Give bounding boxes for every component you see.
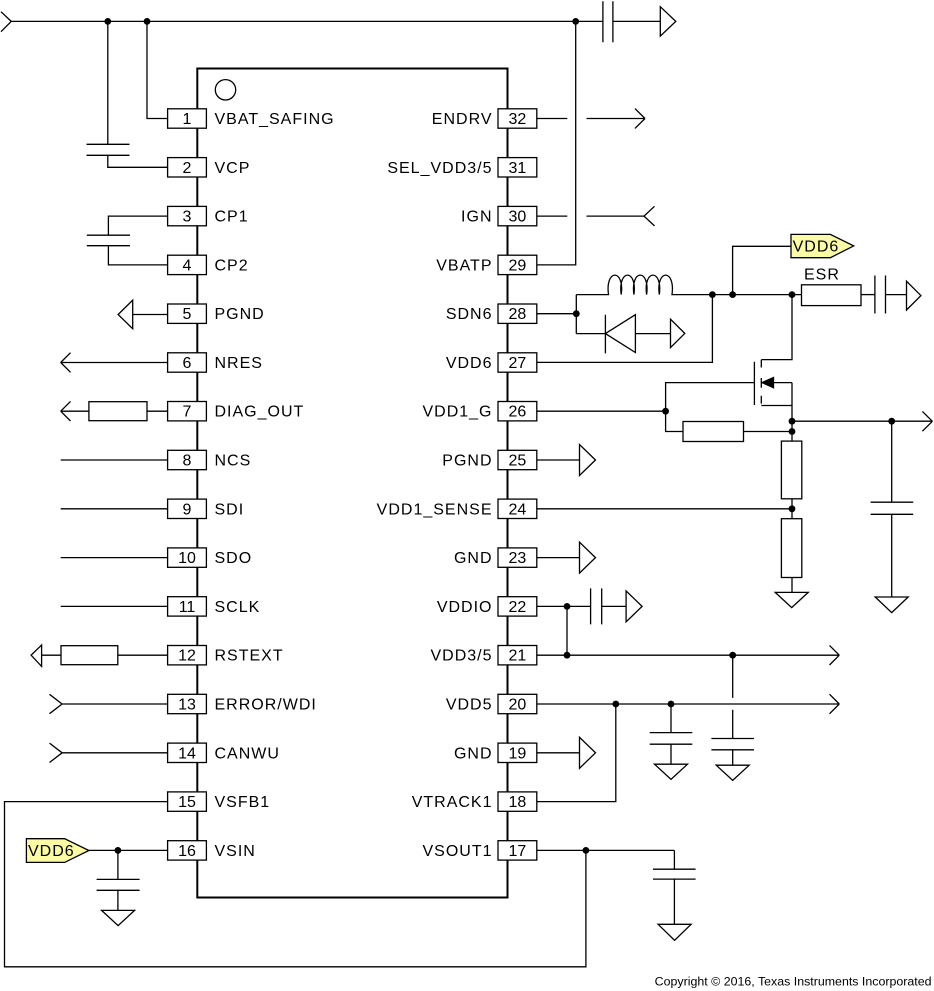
junction dot (VDD3/5 cap tap) bbox=[729, 652, 736, 659]
pin 18 box bbox=[498, 792, 537, 811]
wire flag to pin 16 bbox=[89, 849, 168, 851]
wire drain to FET bbox=[761, 295, 792, 360]
pin 24 box bbox=[498, 499, 537, 518]
junction dot (sense tap) bbox=[789, 505, 796, 512]
junction dot (VDDIO tap) bbox=[564, 603, 571, 610]
IC body U1 bbox=[197, 69, 507, 898]
wire pin 11 bbox=[61, 605, 168, 607]
svg-text:CP1: CP1 bbox=[215, 209, 249, 226]
wire pin 21 VDD3/5 bbox=[537, 645, 840, 665]
wire VDDIO cap to arrow bbox=[602, 605, 626, 607]
wire pin 26 bbox=[537, 410, 666, 412]
ground arrow (ESR cap) bbox=[907, 281, 921, 310]
svg-text:23: 23 bbox=[509, 550, 527, 567]
ground arrow pin 23 bbox=[580, 542, 596, 573]
wire cap to pin 2 bbox=[108, 155, 168, 167]
transistor Q1 body arrow bbox=[762, 378, 774, 388]
inductor L1 bbox=[576, 275, 801, 295]
svg-text:6: 6 bbox=[183, 355, 192, 372]
ground (VDD1 out cap) bbox=[875, 597, 908, 613]
junction dot (VSOUT1 loop) bbox=[583, 847, 590, 854]
svg-text:8: 8 bbox=[183, 453, 192, 470]
junction dot (flag tap) bbox=[729, 291, 736, 298]
wire pin 28 SDN6 bbox=[537, 295, 577, 334]
svg-text:32: 32 bbox=[509, 111, 527, 128]
pin 17 box bbox=[498, 841, 537, 860]
svg-text:VDD6: VDD6 bbox=[28, 843, 75, 860]
wire pin 12 right bbox=[118, 654, 168, 656]
pin 30 box bbox=[498, 206, 537, 225]
svg-text:30: 30 bbox=[509, 209, 527, 226]
input arrowhead pin 14 (CANWU) bbox=[50, 743, 63, 762]
net flag VDD6 (bottom left) bbox=[26, 839, 89, 863]
svg-text:VDD6: VDD6 bbox=[446, 355, 493, 372]
capacitor C (VDD3/5) bbox=[711, 739, 754, 750]
wire pin 14 bbox=[62, 752, 168, 754]
resistor ESR bbox=[802, 285, 862, 306]
junction dot SDN6 bbox=[573, 310, 580, 317]
capacitor C (VDDIO) bbox=[591, 588, 602, 624]
pin 31 box bbox=[498, 158, 537, 177]
wire gate lead bbox=[666, 383, 755, 412]
pin 14 box bbox=[168, 743, 207, 762]
junction dot bbox=[104, 18, 111, 25]
svg-text:27: 27 bbox=[509, 355, 527, 372]
wire from dot down to VCP cap bbox=[107, 21, 109, 144]
wire ESR to cap bbox=[861, 294, 875, 296]
svg-text:14: 14 bbox=[178, 745, 196, 762]
pin 6 box bbox=[168, 353, 207, 372]
transistor Q1 (NMOS) bbox=[754, 360, 792, 441]
pin 8 box bbox=[168, 450, 207, 469]
svg-text:IGN: IGN bbox=[461, 209, 492, 226]
wire pin 12 left bbox=[42, 654, 61, 656]
svg-text:21: 21 bbox=[509, 648, 527, 665]
wire VDD5 cap bbox=[670, 704, 672, 733]
input arrowhead pin 13 (ERROR/WDI) bbox=[50, 694, 63, 713]
output arrowhead pin 7 (DIAG_OUT) bbox=[61, 401, 71, 421]
pin 28 box bbox=[498, 304, 537, 323]
pin 26 box bbox=[498, 402, 537, 421]
svg-text:12: 12 bbox=[178, 648, 196, 665]
wire pin 5 bbox=[133, 314, 168, 316]
wire cap to ground bbox=[732, 750, 734, 765]
svg-text:3: 3 bbox=[183, 209, 192, 226]
resistor R (DIAG_OUT) bbox=[89, 402, 147, 421]
svg-text:SCLK: SCLK bbox=[215, 599, 261, 616]
wire pin 30 stub bbox=[537, 215, 568, 217]
pin 7 box bbox=[168, 402, 207, 421]
svg-text:31: 31 bbox=[509, 160, 527, 177]
wire pin 20 VDD5 bbox=[537, 694, 840, 714]
svg-text:26: 26 bbox=[509, 404, 527, 421]
svg-text:7: 7 bbox=[183, 404, 192, 421]
signal arrow ENDRV bbox=[587, 109, 646, 129]
svg-text:SDI: SDI bbox=[215, 501, 245, 518]
svg-text:PGND: PGND bbox=[215, 306, 265, 323]
pin 19 box bbox=[498, 743, 537, 762]
capacitor C (VSIN) bbox=[97, 879, 140, 890]
junction dot (output cap tap) bbox=[888, 418, 895, 425]
ground arrow pin 19 bbox=[580, 737, 596, 768]
pin 29 box bbox=[498, 255, 537, 274]
pin 5 box bbox=[168, 304, 207, 323]
wire cap to ground arrow bbox=[886, 294, 907, 296]
junction dot (source node) bbox=[789, 418, 796, 425]
net flag VDD6 (top right) bbox=[791, 234, 854, 257]
pin 25 box bbox=[498, 450, 537, 469]
svg-text:24: 24 bbox=[509, 501, 527, 518]
ground arrow pin 5 (PGND) bbox=[118, 300, 133, 329]
svg-text:16: 16 bbox=[178, 843, 196, 860]
pin 15 box bbox=[168, 792, 207, 811]
svg-text:NCS: NCS bbox=[215, 453, 252, 470]
junction dot bbox=[115, 847, 122, 854]
svg-text:17: 17 bbox=[509, 843, 527, 860]
wire top rail bbox=[11, 20, 602, 22]
junction dot (VTRACK tap) bbox=[612, 701, 619, 708]
pin 12 box bbox=[168, 646, 207, 665]
svg-text:1: 1 bbox=[183, 111, 192, 128]
svg-text:SDN6: SDN6 bbox=[446, 306, 493, 323]
wire VDD6 node to pin 27 bbox=[537, 295, 713, 363]
junction dot (VDD1_G) bbox=[662, 408, 669, 415]
pin 9 box bbox=[168, 499, 207, 518]
pin 16 box bbox=[168, 841, 207, 860]
wire VDD1 output bbox=[792, 411, 932, 431]
pin 4 box bbox=[168, 255, 207, 274]
svg-text:GND: GND bbox=[454, 745, 493, 762]
wire pin 3 to CP cap bbox=[108, 216, 167, 235]
wire pin 24 VDD1_SENSE bbox=[537, 508, 792, 510]
wire pin 22 VDDIO bbox=[537, 605, 591, 607]
pin 10 box bbox=[168, 548, 207, 567]
pin 21 box bbox=[498, 646, 537, 665]
svg-text:VTRACK1: VTRACK1 bbox=[412, 794, 493, 811]
resistor R2 (divider) bbox=[781, 519, 801, 578]
svg-text:20: 20 bbox=[509, 697, 527, 714]
svg-text:VDDIO: VDDIO bbox=[437, 599, 493, 616]
svg-text:ESR: ESR bbox=[804, 267, 840, 284]
wire cap to ground bbox=[673, 879, 675, 924]
wire VDDIO tap down to VDD3/5 bbox=[566, 606, 568, 655]
resistor R (RSTEXT) bbox=[61, 646, 118, 665]
svg-text:29: 29 bbox=[509, 257, 527, 274]
junction dot (VDD3/5 left) bbox=[564, 652, 571, 659]
svg-text:25: 25 bbox=[509, 453, 527, 470]
ground arrow (diode) bbox=[671, 319, 685, 347]
wire gate resistor to source node bbox=[744, 431, 793, 433]
svg-text:VDD1_SENSE: VDD1_SENSE bbox=[377, 501, 493, 518]
ground (VDD3/5 cap) bbox=[716, 765, 749, 780]
wire dot to cap bbox=[117, 850, 119, 879]
wire pin 9 bbox=[61, 508, 168, 510]
pin 3 box bbox=[168, 206, 207, 225]
svg-text:VBAT_SAFING: VBAT_SAFING bbox=[215, 111, 335, 128]
svg-text:PGND: PGND bbox=[442, 453, 492, 470]
junction dot (FET drain tap) bbox=[789, 291, 796, 298]
diode D1 bbox=[576, 315, 670, 354]
wire R1 to R2 bbox=[791, 499, 793, 519]
resistor R (gate) bbox=[683, 422, 744, 442]
junction dot (VDD6 node / L out) bbox=[709, 291, 716, 298]
wire pin 25 stub bbox=[537, 459, 580, 461]
ground arrow (VDDIO cap) bbox=[626, 591, 642, 622]
ground arrow (top right) bbox=[660, 7, 676, 36]
svg-text:VDD6: VDD6 bbox=[793, 239, 840, 256]
wire pin 17 VSOUT1 bbox=[537, 849, 675, 851]
wire pin 18 VTRACK1 bbox=[537, 704, 616, 802]
ground arrow pin 12 (RSTEXT) bbox=[31, 645, 41, 666]
pin 27 box bbox=[498, 353, 537, 372]
svg-text:11: 11 bbox=[179, 599, 196, 616]
wire VSOUT1 cap bbox=[673, 850, 675, 869]
svg-text:VDD1_G: VDD1_G bbox=[422, 404, 492, 421]
svg-text:CP2: CP2 bbox=[215, 257, 249, 274]
ground (divider) bbox=[775, 592, 808, 607]
svg-text:SDO: SDO bbox=[215, 550, 253, 567]
capacitor C3 (CP1/CP2) bbox=[87, 235, 130, 246]
capacitor C (VDD1 out) bbox=[871, 502, 914, 514]
wire pin 32 stub bbox=[537, 118, 568, 120]
svg-text:13: 13 bbox=[178, 697, 196, 714]
pin 1 indicator circle bbox=[215, 80, 235, 100]
pin 20 box bbox=[498, 694, 537, 713]
wire pin 7 right bbox=[147, 410, 168, 412]
wire VBATP to top rail bbox=[537, 21, 576, 265]
wire flag tap up bbox=[733, 246, 791, 294]
svg-text:ERROR/WDI: ERROR/WDI bbox=[215, 697, 317, 714]
ground (VDD5 cap) bbox=[655, 764, 688, 779]
svg-text:10: 10 bbox=[178, 550, 196, 567]
wire cap to arrow bbox=[613, 20, 660, 22]
capacitor C2 (top rail) bbox=[603, 1, 613, 42]
pin 11 box bbox=[168, 597, 207, 616]
wire pin 6 bbox=[61, 362, 168, 364]
pin 13 box bbox=[168, 694, 207, 713]
wire R2 to ground bbox=[791, 578, 793, 593]
wire CP cap to pin 4 bbox=[108, 246, 167, 265]
svg-text:VDD3/5: VDD3/5 bbox=[430, 648, 492, 665]
signal input IGN bbox=[587, 206, 655, 226]
wire VDD3/5 cap tap down (hops VDD5) bbox=[732, 655, 734, 738]
svg-text:ENDRV: ENDRV bbox=[432, 111, 493, 128]
svg-text:Copyright © 2016, Texas Instru: Copyright © 2016, Texas Instruments Inco… bbox=[655, 975, 932, 989]
svg-text:18: 18 bbox=[509, 794, 527, 811]
svg-text:22: 22 bbox=[509, 599, 527, 616]
wire dot to gate resistor bbox=[666, 411, 683, 431]
junction dot bbox=[144, 18, 151, 25]
junction dot bbox=[572, 18, 579, 25]
svg-text:VSOUT1: VSOUT1 bbox=[422, 843, 492, 860]
wire pin 23 stub bbox=[537, 557, 580, 559]
svg-text:VBATP: VBATP bbox=[436, 257, 492, 274]
pin 22 box bbox=[498, 597, 537, 616]
wire pin 13 bbox=[62, 703, 168, 705]
capacitor C (VDD5) bbox=[650, 733, 693, 745]
svg-text:GND: GND bbox=[454, 550, 493, 567]
pin 2 box bbox=[168, 158, 207, 177]
svg-text:4: 4 bbox=[183, 257, 192, 274]
junction dot (VDD5 cap tap) bbox=[668, 701, 675, 708]
capacitor C (ESR) bbox=[875, 276, 886, 314]
svg-text:15: 15 bbox=[178, 794, 196, 811]
input arrow (battery input, top-left) bbox=[1, 12, 11, 32]
svg-text:DIAG_OUT: DIAG_OUT bbox=[215, 404, 305, 421]
resistor R1 (divider) bbox=[781, 441, 801, 499]
svg-text:NRES: NRES bbox=[215, 355, 263, 372]
ground (VSIN) bbox=[102, 910, 135, 925]
svg-text:19: 19 bbox=[509, 745, 527, 762]
svg-text:28: 28 bbox=[509, 306, 527, 323]
svg-text:VDD5: VDD5 bbox=[446, 697, 493, 714]
wire cap to ground bbox=[117, 890, 119, 910]
wire pin 7 left bbox=[61, 410, 89, 412]
wire pin 19 stub bbox=[537, 752, 580, 754]
svg-text:CANWU: CANWU bbox=[215, 745, 280, 762]
capacitor C1 (VCP) bbox=[87, 144, 130, 155]
svg-text:RSTEXT: RSTEXT bbox=[215, 648, 284, 665]
wire output cap bbox=[891, 421, 893, 502]
svg-text:9: 9 bbox=[183, 501, 192, 518]
svg-text:2: 2 bbox=[183, 160, 192, 177]
svg-text:VSIN: VSIN bbox=[215, 843, 256, 860]
ground (VSOUT1 cap) bbox=[658, 924, 691, 940]
output arrowhead pin 6 (NRES) bbox=[61, 353, 71, 373]
capacitor C (VSOUT1) bbox=[653, 869, 696, 879]
pin 23 box bbox=[498, 548, 537, 567]
ground arrow pin 25 bbox=[580, 445, 596, 476]
junction dot (divider top) bbox=[789, 428, 796, 435]
wire pin 8 bbox=[61, 459, 168, 461]
pin 1 box bbox=[168, 109, 207, 128]
pin 32 box bbox=[498, 109, 537, 128]
svg-text:5: 5 bbox=[183, 306, 192, 323]
wire cap to ground bbox=[670, 744, 672, 764]
wire from dot to pin 1 bbox=[147, 21, 168, 118]
wire pin 10 bbox=[61, 557, 168, 559]
wire output cap to ground bbox=[891, 514, 893, 597]
wire pin 15 VSFB1 feedback loop bbox=[5, 802, 586, 967]
svg-text:VCP: VCP bbox=[215, 160, 251, 177]
svg-text:SEL_VDD3/5: SEL_VDD3/5 bbox=[387, 160, 492, 177]
svg-text:VSFB1: VSFB1 bbox=[215, 794, 271, 811]
